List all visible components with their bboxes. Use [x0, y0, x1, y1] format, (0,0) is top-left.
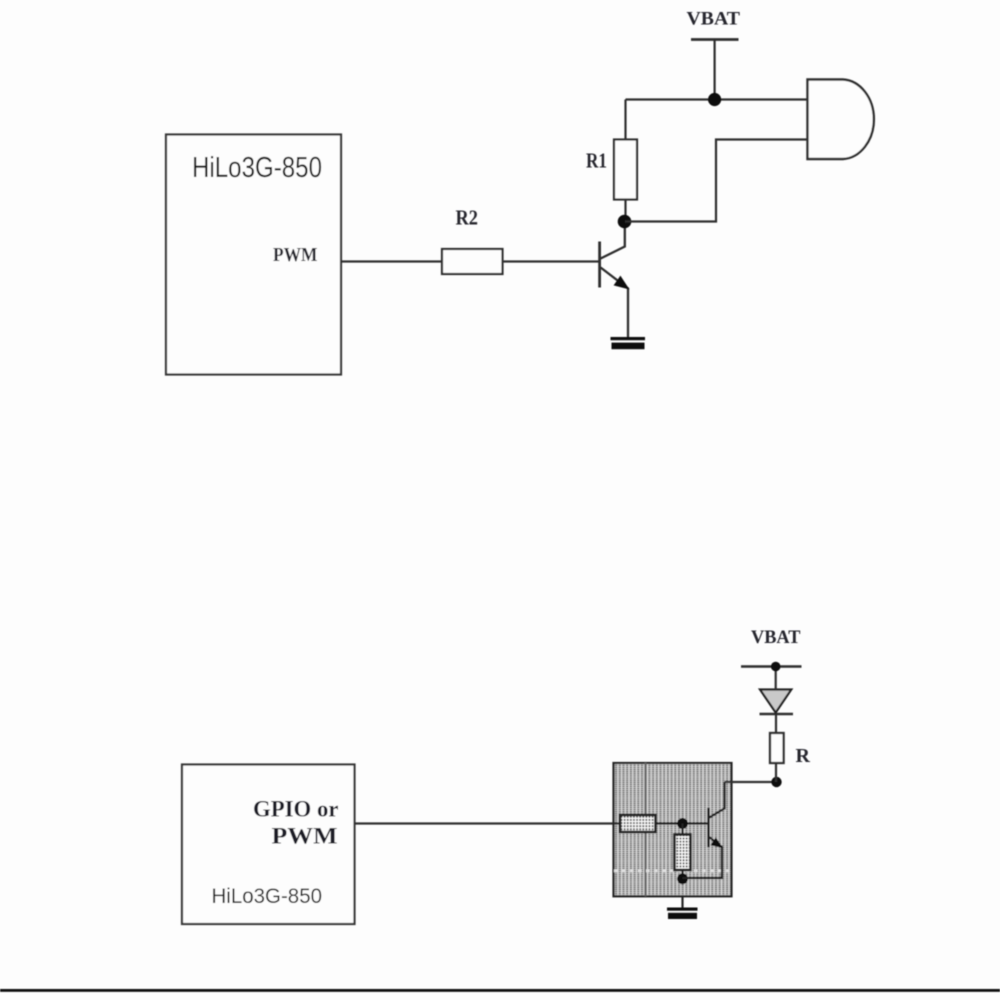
- transistor Q2 emitter arrow: [711, 837, 724, 848]
- ground (top circuit): [611, 337, 646, 340]
- wire top rail: [626, 98, 807, 100]
- digital transistor package: [614, 763, 732, 896]
- module box HiLo3G-850: [166, 135, 341, 375]
- package dashed line: [614, 869, 731, 872]
- junction base node: [677, 818, 688, 829]
- VBAT power bar (top): [691, 38, 739, 41]
- LED diode cathode bar: [760, 713, 794, 716]
- junction collector-R node: [771, 777, 781, 787]
- page footer rule: [0, 989, 1000, 992]
- ground (bottom circuit): [667, 908, 698, 911]
- package crease line: [644, 763, 646, 896]
- svg-text:R2: R2: [456, 206, 479, 230]
- resistor R2: [442, 249, 503, 274]
- svg-text:VBAT: VBAT: [687, 8, 741, 29]
- VBAT power bar (bottom): [741, 665, 802, 668]
- wire collector node to buzzer (lower terminal): [625, 140, 807, 222]
- buzzer LS1: [808, 80, 874, 160]
- wire rail to R1: [624, 100, 626, 141]
- wire collector out of package: [725, 781, 777, 783]
- transistor Q1 base bar: [598, 242, 601, 288]
- svg-text:GPIO or: GPIO or: [253, 797, 339, 822]
- wire VBAT bar to rail: [713, 40, 715, 100]
- wire base node to pulldown resistor: [681, 824, 683, 836]
- wire diode to R: [775, 714, 777, 733]
- module box GPIO/PWM HiLo3G-850: [182, 765, 355, 925]
- wire R to node: [775, 763, 777, 782]
- LED diode triangle: [760, 690, 791, 713]
- svg-text:VBAT: VBAT: [751, 627, 801, 648]
- transistor Q1 collector: [600, 222, 625, 259]
- junction VBAT (bottom): [771, 662, 781, 672]
- transistor Q2 collector: [709, 782, 725, 818]
- wire into package: [614, 822, 620, 824]
- svg-text:R: R: [796, 745, 811, 767]
- wire module to package: [355, 822, 621, 824]
- svg-text:HiLo3G-850: HiLo3G-850: [212, 884, 323, 908]
- pulldown resistor (in package): [675, 835, 691, 871]
- wire PWM to R2: [341, 260, 443, 262]
- resistor R1: [614, 140, 637, 200]
- wire R1 to collector node: [624, 200, 626, 223]
- svg-text:HiLo3G-850: HiLo3G-850: [192, 152, 322, 184]
- wire rail to buzzer (upper terminal): [807, 98, 808, 100]
- transistor Q2 emitter: [683, 837, 723, 879]
- wire VBAT to diode: [775, 667, 777, 690]
- wire package to ground: [681, 896, 683, 909]
- wire base resistor to Q2 base: [656, 822, 708, 824]
- wire R2 to base: [503, 260, 599, 262]
- junction VBAT rail: [708, 93, 721, 106]
- transistor Q1 emitter: [601, 268, 628, 339]
- transistor Q2 base bar: [707, 808, 710, 847]
- junction emitter node: [677, 873, 688, 884]
- junction collector node: [618, 215, 632, 229]
- transistor Q1 emitter arrow: [614, 276, 630, 290]
- base resistor (in package): [620, 815, 656, 832]
- svg-text:R1: R1: [586, 149, 607, 173]
- resistor R: [770, 733, 784, 763]
- svg-text:PWM: PWM: [273, 244, 318, 266]
- wire pulldown resistor to emitter node: [681, 870, 683, 879]
- svg-text:PWM: PWM: [272, 823, 338, 848]
